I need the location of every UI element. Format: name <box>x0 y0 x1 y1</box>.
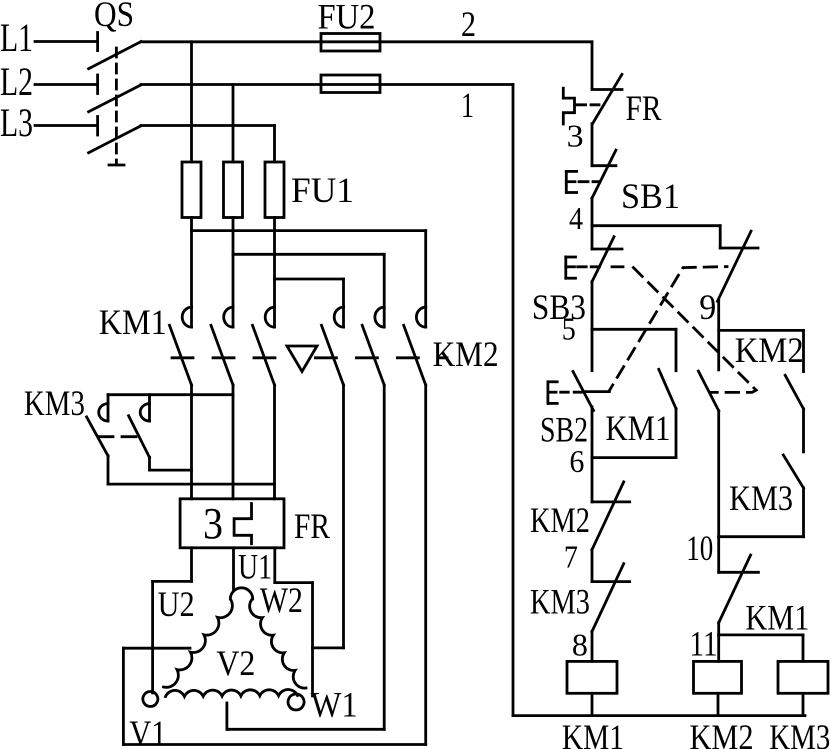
wire phase C below fuse <box>273 218 276 308</box>
contact KM2 aux <box>785 330 803 452</box>
svg-text:W1: W1 <box>311 685 358 725</box>
switch QS pole 2 <box>89 75 141 112</box>
KM2 main contact pole 6 <box>404 307 426 385</box>
svg-text:6: 6 <box>569 443 584 479</box>
wire 2 corner down <box>591 42 594 89</box>
fuse FU2a <box>321 34 380 52</box>
relay FR label <box>294 506 330 546</box>
svg-text:9: 9 <box>699 287 716 327</box>
wire pole1 down <box>190 385 193 499</box>
button SB3 label <box>532 287 586 327</box>
svg-text:FU1: FU1 <box>291 170 354 210</box>
wire W1 run <box>275 548 313 696</box>
KM1 main contact pole 3 <box>253 307 275 385</box>
relay FR box <box>180 499 284 548</box>
wire rail 3 <box>591 124 594 166</box>
svg-text:KM1: KM1 <box>745 598 809 638</box>
node 5 label <box>562 311 576 347</box>
coil KM1 label <box>562 717 624 749</box>
wire L3 input <box>35 124 97 127</box>
node 7 label <box>564 539 578 575</box>
contact KM3 NC <box>592 550 630 632</box>
wire node 4 horizontal <box>592 224 720 227</box>
contact KM1 aux label <box>605 408 670 448</box>
linkage SB2 dashed <box>584 267 727 392</box>
wire phase B below fuse <box>232 218 235 308</box>
wire bus KM3 top <box>108 393 233 396</box>
svg-text:SB3: SB3 <box>532 287 586 327</box>
fuse FU2b <box>321 75 380 93</box>
KM1 main contact pole 2 <box>211 307 233 385</box>
contact KM1 NC <box>719 537 759 623</box>
KM1 main contact pole 1 <box>170 307 192 385</box>
svg-text:KM2: KM2 <box>690 717 754 749</box>
wire bus KM3 bottom <box>108 483 275 486</box>
wire node 5 horizontal <box>592 328 676 331</box>
node L1 <box>0 15 33 60</box>
node 6 label <box>569 443 584 479</box>
svg-text:L3: L3 <box>0 100 33 145</box>
svg-text:KM3: KM3 <box>530 582 590 622</box>
relay FR contact label <box>626 88 662 128</box>
button SB2 contact <box>573 329 594 457</box>
relay FR quantity 3 <box>203 499 223 548</box>
node 11 label <box>690 623 718 663</box>
wire rail 9 <box>717 300 720 370</box>
wire U1 run <box>232 548 235 591</box>
wire KM2 pole6 down <box>424 385 427 745</box>
svg-text:KM2: KM2 <box>735 330 804 370</box>
contact KM1 NC label <box>745 598 809 638</box>
linkage dashed KM1-KM2 <box>172 356 447 359</box>
switch QS pole 1 <box>89 33 141 69</box>
coil KM2 <box>694 635 742 716</box>
motor terminal W1 label <box>311 685 358 725</box>
svg-text:KM1: KM1 <box>562 717 624 749</box>
node 3 label <box>567 118 584 154</box>
wire L3 to fuse <box>141 126 275 163</box>
wire phase A vertical <box>190 42 193 162</box>
wire KM2 pole5 down <box>383 385 386 729</box>
wire V1 run <box>123 648 425 744</box>
wire rail 11 <box>717 623 720 635</box>
coil KM3 label <box>769 717 830 749</box>
wire 1 top horizontal <box>141 83 513 86</box>
motor terminal W2 label <box>260 580 303 620</box>
svg-text:11: 11 <box>690 623 718 663</box>
node 10 label <box>686 528 713 568</box>
svg-text:W2: W2 <box>260 580 303 620</box>
wire phase B vertical <box>232 85 235 163</box>
svg-text:KM3: KM3 <box>24 383 85 423</box>
wire pole3 down <box>273 385 276 499</box>
svg-text:FR: FR <box>626 88 662 128</box>
relay FR contact <box>592 74 622 123</box>
wire crossfeed B to pole5 <box>233 254 384 307</box>
button SB2 actuator <box>548 382 581 404</box>
linkage dashed KM3 <box>99 435 138 438</box>
svg-text:2: 2 <box>461 4 476 44</box>
svg-text:10: 10 <box>686 528 713 568</box>
svg-text:KM2: KM2 <box>530 500 590 540</box>
contactor KM3 label <box>24 383 85 423</box>
wire rail 5 <box>591 282 594 330</box>
contact KM1 aux selfhold <box>659 329 676 457</box>
switch QS label <box>94 0 134 34</box>
svg-text:5: 5 <box>562 311 576 347</box>
svg-text:KM3: KM3 <box>729 478 793 518</box>
wire L1 input <box>35 40 97 43</box>
svg-text:L1: L1 <box>0 15 33 60</box>
node 2 label <box>461 4 476 44</box>
fuse FU1b <box>224 162 243 218</box>
button SB3 actuator <box>566 257 600 278</box>
coil KM1 <box>567 661 617 715</box>
svg-text:V1: V1 <box>129 713 166 749</box>
svg-text:KM1: KM1 <box>99 302 167 342</box>
relay FR actuator <box>563 88 599 124</box>
contact KM2 NC <box>592 458 630 550</box>
wire node 11 horizontal <box>719 635 803 662</box>
KM2 main contact pole 4 <box>322 307 344 385</box>
svg-text:FR: FR <box>294 506 330 546</box>
node L2 <box>0 59 33 104</box>
linkage SB3 dashed <box>612 267 756 393</box>
contact KM3 aux label <box>729 478 793 518</box>
coil KM2 label <box>690 717 754 749</box>
node 8 label <box>572 626 588 662</box>
svg-text:L2: L2 <box>0 59 33 104</box>
switch QS pole 3 <box>89 117 141 153</box>
svg-text:3: 3 <box>567 118 584 154</box>
button SB3 contact <box>592 226 622 282</box>
button SB1 actuator <box>566 171 600 192</box>
button SB2 label <box>540 410 588 450</box>
svg-text:FU2: FU2 <box>318 0 376 37</box>
svg-text:QS: QS <box>94 0 134 34</box>
svg-text:KM3: KM3 <box>769 717 830 749</box>
svg-text:8: 8 <box>572 626 588 662</box>
contactor KM2 label <box>433 334 499 374</box>
motor terminal U1 label <box>238 547 272 587</box>
fuse FU1 label <box>291 170 354 210</box>
button SB1 contact <box>592 150 616 198</box>
motor terminal V2 label <box>216 643 255 683</box>
KM3 contact A <box>87 395 108 484</box>
node 4 label <box>569 200 583 236</box>
node 9 label <box>699 287 716 327</box>
fuse FU2 label <box>318 0 376 37</box>
svg-text:KM2: KM2 <box>433 334 499 374</box>
motor terminal V1 label <box>129 713 166 749</box>
wire L2 input <box>35 83 97 86</box>
fuse FU1a <box>182 162 201 218</box>
svg-text:V2: V2 <box>216 643 255 683</box>
svg-text:3: 3 <box>203 499 223 548</box>
svg-text:4: 4 <box>569 200 583 236</box>
motor winding delta <box>143 588 306 710</box>
button SB2 NC contact (node9 top) <box>717 226 758 302</box>
wire U2 run <box>153 548 192 693</box>
wire KM2 pole4 down <box>313 385 344 648</box>
button SB1 label <box>621 176 680 216</box>
svg-text:7: 7 <box>564 539 578 575</box>
wire V2 run <box>227 703 384 729</box>
wire crossfeed C to pole4 <box>275 279 344 307</box>
motor terminal U2 label <box>158 584 195 624</box>
wire node 9 horizontal <box>719 329 804 332</box>
svg-text:KM1: KM1 <box>605 408 670 448</box>
KM3 contact B <box>129 395 192 470</box>
contact KM2 NC label <box>530 500 590 540</box>
contactor KM1 label <box>99 302 167 342</box>
wire pole2 down <box>232 385 235 499</box>
wire phase A below fuse <box>190 218 193 308</box>
node L3 <box>0 100 33 145</box>
contact SB3 NO <box>698 371 718 537</box>
wire node 6 horizontal <box>592 456 676 459</box>
linkage triangle <box>287 346 317 372</box>
wire crossfeed A to pole6 <box>192 231 426 308</box>
switch QS linkage <box>109 48 124 165</box>
KM2 main contact pole 5 <box>362 307 384 385</box>
node 1 label <box>461 85 474 125</box>
wire rail 4 <box>591 198 594 226</box>
relay FR heater symbol <box>234 504 251 544</box>
wire 2 top horizontal <box>141 40 592 43</box>
fuse FU1c <box>265 162 284 218</box>
wire 1 long vertical <box>513 85 805 716</box>
wire rail 8 <box>591 632 594 662</box>
svg-text:1: 1 <box>461 85 474 125</box>
coil KM3 <box>778 661 828 715</box>
contact KM2 aux label <box>735 330 804 370</box>
wire node 10 horizontal <box>719 535 804 538</box>
svg-text:U2: U2 <box>158 584 195 624</box>
contact KM3 aux <box>783 455 803 537</box>
contact KM3 NC label <box>530 582 590 622</box>
svg-text:SB1: SB1 <box>621 176 680 216</box>
